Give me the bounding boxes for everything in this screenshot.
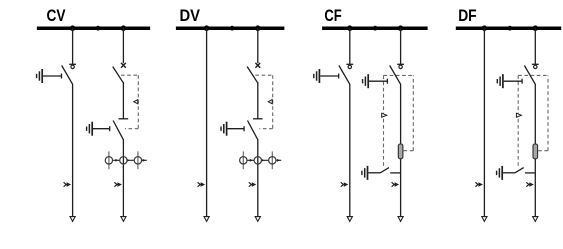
- interlock triangle CF right: [382, 113, 387, 117]
- junction dot DV middle: [230, 26, 235, 31]
- earth wire CF right switch: [369, 80, 387, 82]
- lower earthing contact bar DF right: [525, 172, 535, 174]
- wire CV right to earthing switch: [122, 82, 124, 119]
- interlock dash top DF right: [518, 74, 548, 76]
- contact circle CF right: [399, 65, 402, 68]
- ground symbol CV right earthing: [87, 122, 93, 136]
- cable arrow DV right: [255, 217, 260, 222]
- ground symbol CV left: [37, 69, 43, 83]
- earth contact tick DF right switch: [521, 79, 523, 84]
- junction dot DV right feeder: [255, 25, 261, 31]
- breaker contact cross CV right: [121, 63, 126, 68]
- cable arrow CF right: [398, 217, 403, 222]
- breaker blade DV right: [247, 67, 258, 83]
- interlock dash bottom DV right: [259, 128, 272, 130]
- VT bushing stub CV right2: [137, 151, 139, 169]
- cable connector DF left: [475, 182, 483, 187]
- VT bushing stub CV right1: [108, 151, 110, 169]
- contact circle CV left: [71, 65, 74, 68]
- interlock triangle DF right: [516, 113, 521, 117]
- wire CV right main drop: [122, 139, 124, 217]
- VT bushing stub DV right1: [242, 151, 244, 169]
- cable connector CV right: [114, 182, 122, 187]
- switch blade DF right: [524, 66, 535, 85]
- earth contact tick CV left: [61, 74, 63, 79]
- earthing contact bar CV right: [119, 118, 129, 120]
- cable arrow DV left: [204, 217, 209, 222]
- VT bushing stub DV right2: [271, 151, 273, 169]
- VT arrow CV right1: [115, 159, 118, 162]
- breaker contact cross DV right: [255, 63, 260, 68]
- svg-text:DF: DF: [458, 7, 476, 25]
- junction dot CF left feeder: [347, 25, 353, 31]
- cable connector CF right: [392, 182, 400, 187]
- VT link wire CV right left: [113, 159, 120, 161]
- VT stub wire CV right out: [142, 159, 147, 161]
- earthing blade CV right: [113, 121, 123, 140]
- wire CF right main drop: [400, 84, 402, 217]
- cable connector DV right: [249, 182, 256, 187]
- earth wire CF right lower: [368, 172, 380, 174]
- junction dot CV left feeder: [70, 25, 76, 31]
- wire DV right busbar drop: [257, 28, 259, 63]
- interlock dash top CV right: [121, 74, 138, 76]
- interlock dash fuse link CF right: [403, 150, 413, 152]
- wire CF left main drop: [349, 84, 351, 217]
- wire DF left drop: [483, 28, 485, 217]
- contact bar CV left: [69, 63, 76, 65]
- wire CV left busbar drop: [72, 28, 74, 64]
- earthing blade DV right: [248, 121, 258, 140]
- VT circle DV right1: [240, 157, 247, 164]
- junction dot CF middle: [373, 26, 378, 31]
- wire CF left busbar drop: [349, 28, 351, 64]
- svg-text:CV: CV: [47, 7, 66, 25]
- VT circle CV right1: [105, 157, 112, 164]
- wire CV right busbar drop: [122, 28, 124, 63]
- ground symbol DV right earthing: [221, 122, 227, 136]
- busbar CV: [37, 26, 150, 30]
- busbar DV: [176, 26, 285, 30]
- ground symbol DF right switch: [497, 74, 503, 88]
- VT link wire CV right right: [127, 159, 134, 161]
- VT arrow DV right3: [277, 159, 280, 162]
- lower earthing blade CF right: [380, 168, 389, 173]
- cable connector CF left: [341, 182, 349, 187]
- cable arrow DF left: [482, 217, 487, 222]
- VT arrow CV right3: [143, 159, 146, 162]
- cable arrow DF right: [533, 217, 538, 222]
- switch blade CV left: [62, 66, 73, 85]
- lower earthing contact bar CF right: [390, 172, 400, 174]
- ground symbol CF right earthing: [362, 166, 368, 180]
- interlock triangle CV right: [134, 100, 138, 104]
- wire DV right main drop: [257, 139, 259, 217]
- breaker blade CV right: [113, 67, 124, 83]
- fuse DF right: [533, 144, 538, 159]
- VT arrow CV right2: [127, 159, 130, 162]
- cable connector CV left: [64, 182, 72, 187]
- cable arrow CV left: [70, 217, 75, 222]
- earth wire DF right switch: [504, 80, 522, 82]
- junction dot CV right feeder: [121, 25, 127, 31]
- junction dot CF right feeder: [398, 25, 404, 31]
- interlock triangle DV right: [268, 100, 272, 104]
- contact bar DF right: [532, 63, 539, 65]
- cable connector DF right: [526, 182, 534, 187]
- VT circle DV right2: [254, 157, 261, 164]
- earthing contact bar DV right: [253, 118, 263, 120]
- VT stub wire DV right out: [276, 159, 281, 161]
- earth contact tick CF right switch: [386, 79, 388, 84]
- contact bar CF left: [346, 63, 353, 65]
- cable arrow CV right: [121, 217, 126, 222]
- VT circle CV right3: [134, 157, 141, 164]
- wire DV left drop: [206, 28, 208, 217]
- wire CF right busbar drop: [400, 28, 402, 64]
- ground symbol DF right earthing: [497, 166, 503, 180]
- busbar DF: [456, 26, 561, 30]
- cable connector DV left: [198, 182, 206, 187]
- switch blade CF right: [390, 66, 401, 85]
- interlock dash right CF right: [412, 75, 414, 150]
- interlock dash fuse link DF right: [538, 150, 548, 152]
- busbar CF: [322, 26, 428, 30]
- wire DF right busbar drop: [534, 28, 536, 64]
- cable arrow CF left: [347, 217, 352, 222]
- wire CV left main drop: [72, 84, 74, 217]
- interlock dash left DF right: [517, 75, 519, 166]
- contact circle CF left: [348, 65, 351, 68]
- contact bar CF right: [397, 63, 404, 65]
- earth wire CF left: [320, 75, 339, 77]
- interlock dash top DV right: [255, 74, 272, 76]
- earth contact tick DV right: [243, 126, 245, 131]
- earth wire CV right: [93, 128, 110, 130]
- VT link wire DV right right: [261, 159, 268, 161]
- VT arrow DV right2: [261, 159, 264, 162]
- earth wire DF right lower: [503, 172, 515, 174]
- interlock dash side CV right: [137, 75, 139, 129]
- interlock dash side DV right: [272, 75, 274, 129]
- VT circle DV right3: [269, 157, 276, 164]
- junction dot DF right feeder: [533, 25, 539, 31]
- switch blade CF left: [339, 66, 350, 85]
- earth wire CV left: [43, 75, 62, 77]
- lower earthing blade DF right: [515, 168, 524, 173]
- interlock dash left CF right: [383, 75, 385, 166]
- junction dot DV left feeder: [204, 25, 210, 31]
- ground symbol CF left: [314, 69, 320, 83]
- interlock dash top CF right: [384, 74, 414, 76]
- VT link wire DV right left: [247, 159, 254, 161]
- interlock dash bottom CV right: [125, 128, 138, 130]
- wire DV right to earthing switch: [257, 82, 259, 119]
- ground symbol CF right switch: [363, 74, 369, 88]
- wire DF right main drop: [534, 84, 536, 217]
- svg-text:CF: CF: [324, 7, 341, 25]
- interlock dash right DF right: [547, 75, 549, 150]
- earth wire DV right: [227, 128, 244, 130]
- junction dot DF middle: [507, 26, 512, 31]
- earth contact tick CF left: [338, 74, 340, 79]
- VT circle CV right2: [120, 157, 127, 164]
- junction dot DF left feeder: [482, 25, 488, 31]
- fuse CF right: [398, 144, 403, 159]
- junction dot CV middle: [96, 26, 101, 31]
- VT arrow DV right1: [250, 159, 253, 162]
- contact circle DF right: [534, 65, 537, 68]
- earth contact tick CV right: [109, 126, 111, 131]
- svg-text:DV: DV: [180, 7, 201, 25]
